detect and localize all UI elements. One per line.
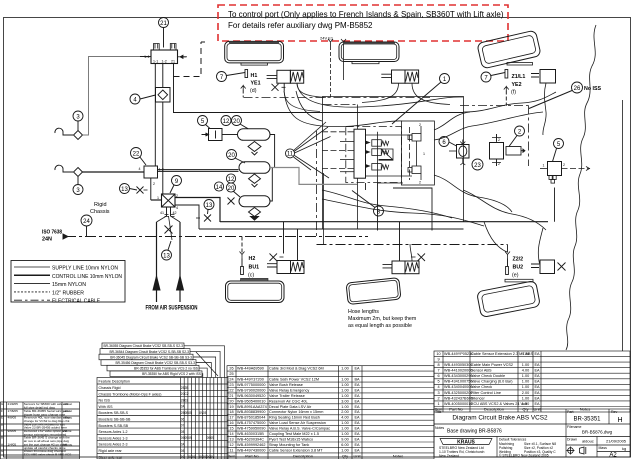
svg-text:1-1: 1-1: [153, 60, 158, 64]
svg-text:1.00: 1.00: [341, 383, 348, 387]
svg-text:Chassis Rigid: Chassis Rigid: [99, 386, 121, 390]
svg-text:WB-8991AAA374: WB-8991AAA374: [237, 405, 267, 409]
svg-text:E: E: [1, 416, 3, 420]
svg-text:H2: H2: [249, 256, 256, 262]
svg-text:20: 20: [228, 153, 235, 159]
svg-text:To control port (Only applies: To control port (Only applies to French …: [228, 10, 504, 19]
svg-text:20: 20: [229, 399, 233, 403]
balloon 9: [170, 176, 182, 194]
svg-text:0B: 0B: [181, 430, 185, 434]
tyre top-middle: [339, 42, 399, 64]
svg-text:15: 15: [229, 427, 233, 431]
svg-text:BR-36055 Diagram Circuit Brake: BR-36055 Diagram Circuit Brake VCS2 SB-S…: [103, 344, 183, 348]
internal frame: [366, 132, 413, 183]
svg-text:Valve Relay Emergency: Valve Relay Emergency: [269, 388, 309, 392]
svg-text:2.00: 2.00: [341, 410, 348, 414]
svg-text:Valve Load Sense Air Suspensio: Valve Load Sense Air Suspension: [269, 421, 326, 425]
ground bar under TR: [507, 63, 533, 66]
logo box: [439, 439, 492, 459]
svg-text:(e): (e): [512, 273, 519, 279]
svg-text:EA: EA: [354, 394, 360, 398]
svg-text:WB-4759950090: WB-4759950090: [237, 427, 266, 431]
svg-text:25: 25: [229, 372, 233, 376]
svg-text:Valve Charging (6.0 Bar): Valve Charging (6.0 Bar): [471, 380, 513, 384]
svg-text:1.00: 1.00: [522, 363, 529, 367]
svg-text:1: 1: [543, 164, 545, 168]
dashed leader to red note box: [174, 42, 206, 77]
svg-text:EA: EA: [534, 363, 540, 367]
svg-text:KRAUS: KRAUS: [457, 440, 475, 446]
svg-text:1.00: 1.00: [341, 388, 348, 392]
svg-text:22: 22: [229, 388, 233, 392]
junction box bottom right: [531, 260, 566, 274]
svg-text:WB-4343000290: WB-4343000290: [444, 374, 473, 378]
svg-text:1.00: 1.00: [341, 448, 348, 452]
svg-text:WB-8760185044: WB-8760185044: [237, 416, 266, 420]
svg-text:1.00: 1.00: [341, 378, 348, 382]
svg-text:12: 12: [229, 443, 233, 447]
right side hoses: [284, 83, 556, 266]
svg-text:H: H: [617, 417, 622, 424]
control palm coupling: [55, 165, 144, 176]
svg-text:Rigid axle rear: Rigid axle rear: [99, 449, 123, 453]
balloon 20 mid: [227, 150, 246, 164]
svg-text:Sensors Axles 1-2: Sensors Axles 1-2: [99, 430, 128, 434]
svg-text:kg: kg: [622, 446, 626, 451]
svg-text:26: 26: [229, 367, 233, 371]
sensor Z1/L1: [504, 70, 526, 106]
svg-text:BR-35353 for ABS Trombone VCS: BR-35353 for ABS Trombone VCS 2 no ISS: [134, 367, 199, 371]
svg-text:41: 41: [160, 211, 164, 215]
svg-text:0C: 0C: [192, 455, 197, 459]
svg-text:WB-4599992462: WB-4599992462: [237, 443, 266, 447]
electrical bus top: [244, 98, 529, 237]
svg-text:4/8/05: 4/8/05: [8, 416, 17, 420]
tyre top-right tilted: [477, 30, 541, 69]
svg-text:6.00: 6.00: [341, 443, 348, 447]
svg-text:WB-4757475000: WB-4757475000: [237, 421, 266, 425]
svg-text:EA: EA: [354, 399, 360, 403]
svg-text:Strap Mounting for Tank: Strap Mounting for Tank: [269, 443, 309, 447]
svg-text:05: 05: [203, 411, 207, 415]
svg-text:H1: H1: [251, 73, 258, 79]
svg-text:Valve Check: Valve Check: [471, 385, 492, 389]
svg-text:WB-4341000750: WB-4341000750: [444, 380, 473, 384]
svg-text:9: 9: [437, 358, 439, 362]
svg-text:Z2/2: Z2/2: [513, 257, 524, 263]
svg-text:Part No: Part No: [245, 454, 259, 459]
svg-text:BR-35351: BR-35351: [573, 417, 601, 423]
svg-text:EA: EA: [534, 402, 540, 406]
relay valve 6: [449, 140, 469, 166]
svg-text:1.00: 1.00: [341, 432, 348, 436]
svg-text:2: 2: [437, 396, 439, 400]
svg-text:Chassis: Chassis: [90, 209, 110, 215]
svg-text:BU2: BU2: [513, 265, 524, 271]
svg-text:SUPPLY LINE 10mm NYLON: SUPPLY LINE 10mm NYLON: [52, 266, 118, 272]
svg-text:EA: EA: [354, 388, 360, 392]
svg-text:1/2" RUBBER: 1/2" RUBBER: [52, 290, 84, 296]
svg-text:Filter Control Line: Filter Control Line: [471, 391, 501, 395]
sensor cable fan balloon 11: [270, 122, 357, 184]
tolerances: [499, 438, 556, 458]
svg-text:13: 13: [206, 203, 213, 209]
svg-text:Hose lengths: Hose lengths: [348, 309, 379, 315]
svg-text:Part: Part: [567, 410, 573, 414]
svg-text:10: 10: [436, 352, 440, 356]
svg-text:20: 20: [228, 186, 235, 192]
balloon 4: [130, 94, 156, 104]
svg-text:EA: EA: [354, 367, 360, 371]
svg-text:09: 09: [210, 436, 214, 440]
balloons 12 20 14 + test X: [214, 174, 240, 205]
balloon 22: [131, 148, 147, 166]
svg-text:Cable Satn Power VCS2 12M: Cable Satn Power VCS2 12M: [269, 378, 319, 382]
svg-text:WB-9505400010: WB-9505400010: [237, 399, 266, 403]
balloon 3 top: [73, 111, 83, 131]
svg-text:21: 21: [229, 394, 233, 398]
svg-text:6: 6: [437, 374, 439, 378]
parts table centre: [227, 366, 434, 459]
svg-text:ISO 7638: ISO 7638: [42, 230, 62, 236]
svg-text:Mass: Mass: [599, 446, 608, 450]
svg-text:EA: EA: [354, 432, 360, 436]
svg-text:14: 14: [216, 185, 223, 191]
reservoir 1: [222, 129, 270, 155]
load-sensing valve (X box): [157, 194, 220, 229]
svg-text:5: 5: [437, 380, 439, 384]
tank2 supply line: [270, 168, 357, 185]
svg-text:No ISS: No ISS: [584, 86, 602, 92]
svg-text:Cable 3rd Mod & Diag VCS2 6M: Cable 3rd Mod & Diag VCS2 6M: [269, 367, 324, 371]
balloon 3 bottom: [73, 177, 83, 195]
svg-text:CONTROL LINE 10mm NYLON: CONTROL LINE 10mm NYLON: [52, 274, 122, 280]
left feed lines: [322, 132, 354, 172]
svg-text:21: 21: [160, 21, 167, 27]
svg-text:Connector Nylon 16mm x 15mm: Connector Nylon 16mm x 15mm: [269, 410, 323, 414]
svg-text:EA: EA: [354, 427, 360, 431]
lower step connections: [366, 183, 433, 231]
svg-text:Chassis Trombone (Motor-Ops F: Chassis Trombone (Motor-Ops F axles): [99, 392, 162, 396]
svg-text:Sensor ABS: Sensor ABS: [471, 369, 492, 373]
red dashed note box: [218, 5, 508, 41]
svg-text:Silencer: Silencer: [471, 396, 485, 400]
svg-text:17: 17: [229, 416, 233, 420]
svg-text:(f): (f): [511, 90, 516, 96]
svg-text:EA: EA: [354, 416, 360, 420]
svg-text:WB-9630049520: WB-9630049520: [237, 394, 266, 398]
Rigid Chassis + balloon 24: [81, 202, 110, 237]
sensor H1: [241, 70, 261, 98]
svg-text:Unit: Unit: [353, 454, 361, 459]
svg-text:03: 03: [185, 398, 189, 402]
svg-text:05: 05: [188, 411, 192, 415]
svg-text:2: 2: [563, 163, 565, 167]
svg-text:13: 13: [229, 438, 233, 442]
balloon 13 left + test point: [120, 184, 148, 194]
svg-text:9/6/05: 9/6/05: [8, 429, 17, 433]
air suspension feed lines: [153, 216, 184, 302]
svg-text:7: 7: [437, 369, 439, 373]
revision history table bottom-left: [1, 402, 80, 459]
ECU body: [354, 129, 366, 178]
tyre bottom-left: [226, 278, 285, 302]
svg-text:ECU ABS valve check B ABS VCS: ECU ABS valve check B ABS VCS: [24, 453, 71, 457]
svg-text:Diagram Circuit Brake ABS VCS2: Diagram Circuit Brake ABS VCS2: [452, 415, 548, 422]
svg-text:1-2: 1-2: [162, 60, 167, 64]
svg-text:B: B: [1, 436, 3, 440]
svg-text:WB-4325000200: WB-4325000200: [444, 391, 473, 395]
svg-text:20: 20: [233, 119, 240, 125]
svg-text:Cable Main Power VCS2: Cable Main Power VCS2: [471, 363, 513, 367]
svg-text:Ring Sealing 16mm Red Bush: Ring Sealing 16mm Red Bush: [269, 416, 320, 420]
svg-text:EA: EA: [534, 396, 540, 400]
svg-text:16: 16: [229, 421, 233, 425]
svg-text:Coupling Test Male M22 x 1.5: Coupling Test Male M22 x 1.5: [269, 432, 319, 436]
svg-text:17/8/05: 17/8/05: [8, 409, 19, 413]
svg-text:Notes: Notes: [393, 454, 403, 459]
svg-text:12: 12: [228, 177, 235, 183]
svg-text:Rev: Rev: [611, 410, 617, 414]
balloon 5 lower right: [553, 139, 564, 222]
svg-text:ELECTRICAL CABLE: ELECTRICAL CABLE: [52, 299, 100, 305]
svg-text:Base drawing BR-B5876: Base drawing BR-B5876: [447, 429, 502, 435]
filter F22: [139, 166, 239, 200]
spring brake chamber 4: [383, 222, 426, 274]
svg-text:WB-4410020000: WB-4410020000: [444, 369, 473, 373]
svg-text:1: 1: [423, 152, 425, 156]
svg-text:1: 1: [157, 196, 159, 200]
svg-text:EA: EA: [534, 391, 540, 395]
svg-text:1.00: 1.00: [341, 405, 348, 409]
svg-text:22: 22: [133, 151, 140, 157]
svg-text:1.00: 1.00: [522, 374, 529, 378]
svg-text:Reservoir Air CGC 40L: Reservoir Air CGC 40L: [269, 399, 308, 403]
valve U21 trailer release: [144, 44, 187, 64]
svg-text:BA: BA: [354, 378, 360, 382]
title block: [434, 409, 630, 459]
svg-text:BR-36544 Diagram Circuit Brake: BR-36544 Diagram Circuit Brake VCS2 S-SB…: [109, 350, 189, 354]
svg-text:A2: A2: [609, 453, 617, 459]
spring brake chamber 3: [267, 222, 304, 274]
projection symbol: [567, 447, 586, 455]
svg-text:YE2: YE2: [512, 82, 522, 88]
svg-text:2.00: 2.00: [522, 391, 529, 395]
svg-text:4: 4: [176, 206, 178, 210]
svg-text:Z1/L1: Z1/L1: [512, 74, 526, 80]
ISO 7638 label and electrical trunk: [42, 230, 368, 243]
balloon 13 mid + test point: [196, 200, 214, 222]
charging valve box 5: [202, 129, 223, 141]
svg-text:Title: Title: [435, 410, 442, 414]
svg-text:11: 11: [287, 152, 294, 158]
right sub assembly: [401, 121, 434, 185]
svg-text:WB-4340040000: WB-4340040000: [444, 385, 473, 389]
port 21 riser and main supply line: [174, 64, 464, 113]
svg-text:2: 2: [153, 182, 155, 186]
svg-text:ECU ABS VCS2 & Valves 24 Volt: ECU ABS VCS2 & Valves 24 Volt: [471, 402, 528, 406]
svg-text:1.00: 1.00: [522, 385, 529, 389]
reservoir 2: [239, 162, 270, 187]
svg-text:1: 1: [437, 402, 439, 406]
balloon 13 suspension: [162, 241, 172, 260]
svg-text:Pyert Test M16x15 Wabco: Pyert Test M16x15 Wabco: [269, 438, 313, 442]
svg-text:BR-36045 Diagram Circuit Brake: BR-36045 Diagram Circuit Brake VCS2 SB-S…: [110, 355, 192, 359]
svg-text:13: 13: [121, 187, 128, 193]
legend box: [11, 261, 125, 305]
svg-text:13: 13: [163, 253, 170, 259]
svg-text:EA: EA: [354, 448, 360, 452]
svg-text:4.00: 4.00: [522, 352, 529, 356]
svg-text:Valve Relay A.B.S. Valve-C/Cam: Valve Relay A.B.S. Valve-C/Campac: [269, 427, 330, 431]
svg-text:18: 18: [229, 410, 233, 414]
check valve with diamond: [155, 64, 170, 195]
tyre bottom-middle: [346, 278, 401, 305]
24V supply stub: [320, 36, 346, 98]
svg-text:24N: 24N: [42, 237, 52, 243]
svg-text:2: 2: [419, 123, 421, 127]
tyre bottom-right tilted: [477, 281, 541, 318]
svg-text:With ISS: With ISS: [99, 405, 114, 409]
balloon 1: [392, 74, 450, 125]
triangle amplifier: [381, 149, 393, 160]
svg-text:WB-432437B600: WB-432437B600: [444, 396, 473, 400]
svg-text:09: 09: [188, 436, 192, 440]
svg-text:Drawn: Drawn: [567, 438, 577, 442]
svg-text:Valve Trailer Release: Valve Trailer Release: [269, 394, 305, 398]
svg-text:0C: 0C: [181, 455, 186, 459]
matrix grid: [97, 378, 228, 459]
svg-text:Boosters SB-SB-SB: Boosters SB-SB-SB: [99, 418, 132, 422]
ECU ABS assembly: [322, 121, 434, 231]
svg-text:EA: EA: [354, 438, 360, 442]
svg-text:EA: EA: [354, 405, 360, 409]
svg-text:8: 8: [437, 363, 439, 367]
svg-text:2: 2: [498, 162, 500, 166]
hoses from chamber 1 to ECU: [284, 83, 326, 111]
svg-text:EA: EA: [534, 385, 540, 389]
svg-text:(d): (d): [250, 88, 257, 94]
svg-text:Sensors Axles 1-3: Sensors Axles 1-3: [99, 436, 128, 440]
svg-text:1.00: 1.00: [341, 421, 348, 425]
svg-text:WB-4497430000: WB-4497430000: [237, 448, 266, 452]
balloon 5: [198, 116, 211, 129]
reservoir linking pipes: [270, 135, 275, 202]
svg-text:2B: 2B: [185, 386, 189, 390]
svg-text:1.00: 1.00: [522, 402, 529, 406]
svg-text:WB-8938839900: WB-8938839900: [237, 410, 266, 414]
svg-text:EA: EA: [354, 421, 360, 425]
svg-text:11: 11: [230, 448, 234, 452]
feature matrix: [97, 343, 228, 459]
svg-text:1.00: 1.00: [341, 367, 348, 371]
svg-text:EA: EA: [534, 352, 540, 356]
solenoid valves: [366, 140, 389, 170]
balloon 8: [352, 191, 384, 217]
balloon 6: [439, 137, 457, 147]
svg-text:4.00: 4.00: [341, 416, 348, 420]
svg-text:Maximum 2m, but keep them: Maximum 2m, but keep them: [348, 316, 417, 322]
distribution box 5 (lower right): [540, 162, 590, 184]
svg-text:Decal Plate Data LSV Air: Decal Plate Data LSV Air: [269, 405, 312, 409]
right chassis break wavy line: [566, 25, 596, 350]
svg-text:1.00: 1.00: [341, 427, 348, 431]
svg-text:14: 14: [229, 432, 233, 436]
svg-text:© STEELBRO New Zealand 2005: © STEELBRO New Zealand 2005: [499, 454, 549, 458]
svg-text:BR-35350 for ABS Rigid VCS 2 w: BR-35350 for ABS Rigid VCS 2 with ISS: [142, 372, 202, 376]
spring brake chamber 1: [267, 70, 304, 91]
svg-text:06: 06: [181, 417, 185, 421]
svg-text:Default Tolerances: Default Tolerances: [499, 438, 527, 442]
svg-text:BR-35456 Diagram Circuit Brake: BR-35456 Diagram Circuit Brake VCS2 SB-S…: [115, 361, 195, 365]
svg-text:3.00: 3.00: [341, 399, 348, 403]
balloon 2: [509, 126, 525, 147]
balloon 26 No ISS: [529, 82, 602, 109]
svg-text:12: 12: [223, 119, 230, 125]
svg-text:1.00: 1.00: [522, 380, 529, 384]
svg-text:Boosters S-SB-SB: Boosters S-SB-SB: [99, 424, 129, 428]
balloon 7 left: [217, 72, 246, 82]
svg-text:1/4/05: 1/4/05: [8, 442, 17, 446]
spring brake chamber 2: [362, 70, 450, 105]
svg-text:Valve Bush Release: Valve Bush Release: [269, 383, 303, 387]
svg-text:23: 23: [229, 383, 233, 387]
svg-text:EA: EA: [354, 383, 360, 387]
release valve 2: [490, 134, 526, 166]
svg-text:FROM AIR SUSPENSION: FROM AIR SUSPENSION: [146, 306, 198, 312]
svg-text:F: F: [1, 409, 3, 413]
svg-text:2: 2: [419, 181, 421, 185]
svg-text:WB-449Y37200: WB-449Y37200: [237, 378, 264, 382]
svg-text:Sensors Axles 2-3: Sensors Axles 2-3: [99, 443, 128, 447]
svg-text:C2: C2: [185, 392, 189, 396]
balloon 23: [472, 159, 483, 170]
svg-text:1.00: 1.00: [522, 396, 529, 400]
svg-text:23: 23: [474, 163, 481, 169]
svg-text:0B: 0B: [181, 449, 185, 453]
svg-text:EA: EA: [534, 380, 540, 384]
svg-text:26: 26: [574, 86, 581, 92]
svg-text:Steer axle rear: Steer axle rear: [99, 455, 123, 459]
svg-text:2: 2: [498, 138, 500, 142]
svg-text:WB-4005000010: WB-4005000010: [444, 402, 473, 406]
svg-text:BU1: BU1: [249, 265, 260, 271]
balloons 12 20: [221, 116, 248, 129]
svg-text:Boosters SB-SB-S: Boosters SB-SB-S: [99, 411, 129, 415]
balloon 7 right: [481, 72, 505, 82]
svg-text:No ISS: No ISS: [99, 399, 111, 403]
svg-text:15mm NYLON: 15mm NYLON: [52, 282, 86, 288]
svg-text:21/9/05: 21/9/05: [8, 402, 19, 406]
sensor H2 bottom: [240, 237, 260, 279]
svg-text:EA: EA: [534, 374, 540, 378]
reservoir 3: [239, 196, 270, 220]
svg-text:Rigid: Rigid: [94, 202, 107, 208]
svg-text:24V E1: 24V E1: [320, 36, 334, 41]
svg-text:21: 21: [171, 60, 175, 64]
svg-text:Cable Sensor Extension 3.8 MT: Cable Sensor Extension 3.8 MT: [269, 448, 323, 452]
tyre top-left: [225, 41, 284, 65]
junction box top right: [531, 70, 556, 136]
svg-text:3: 3: [437, 391, 439, 395]
svg-text:For details refer auxiliary dw: For details refer auxiliary dwg PM-B5852: [228, 21, 373, 30]
svg-text:Valve Check Double: Valve Check Double: [471, 374, 505, 378]
svg-text:WB-46300315B: WB-46300315B: [237, 432, 264, 436]
main horizontal bus lines: [199, 222, 548, 245]
svg-text:WB-4493050300: WB-4493050300: [444, 363, 473, 367]
svg-text:New Zealand: New Zealand: [439, 454, 459, 458]
svg-text:aldouc: aldouc: [582, 439, 594, 444]
